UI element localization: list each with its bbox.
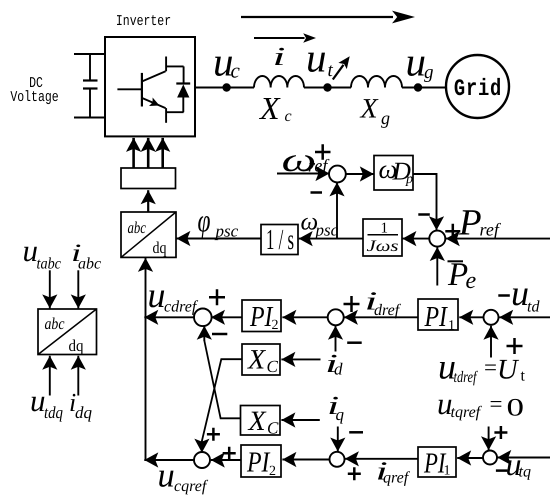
svg-text:t: t [521, 368, 526, 385]
svg-text:1 / s: 1 / s [266, 224, 294, 256]
svg-text:PI: PI [246, 447, 270, 479]
svg-text:1: 1 [444, 464, 451, 479]
svg-text:c: c [285, 108, 292, 125]
svg-text:psc: psc [315, 221, 339, 240]
svg-text:u: u [406, 39, 427, 85]
svg-text:PI: PI [249, 301, 273, 333]
svg-text:dref: dref [374, 302, 402, 319]
svg-text:2: 2 [272, 318, 279, 333]
svg-text:φ: φ [198, 202, 211, 239]
svg-text:X: X [247, 345, 266, 376]
svg-text:dq: dq [69, 336, 84, 355]
svg-text:u: u [306, 35, 327, 81]
svg-text:dq: dq [153, 238, 167, 257]
svg-text:p: p [405, 172, 413, 187]
svg-text:psc: psc [215, 222, 239, 241]
svg-text:cdref: cdref [164, 299, 199, 316]
svg-text:ref: ref [308, 156, 330, 176]
svg-text:qref: qref [383, 470, 411, 487]
svg-text:u: u [148, 275, 166, 315]
svg-text:C: C [267, 419, 279, 438]
svg-text:Jωs: Jωs [367, 238, 399, 255]
svg-text:t: t [328, 60, 334, 81]
svg-text:tdq: tdq [44, 403, 63, 422]
svg-text:u: u [158, 457, 175, 495]
svg-text:tq: tq [519, 464, 531, 481]
svg-text:Voltage: Voltage [10, 89, 58, 106]
svg-text:cqref: cqref [174, 478, 209, 495]
svg-text:g: g [424, 62, 434, 83]
svg-text:X: X [360, 94, 379, 125]
svg-text:tdref: tdref [454, 369, 479, 386]
svg-text:X: X [258, 90, 281, 126]
svg-text:abc: abc [45, 314, 66, 333]
svg-text:X: X [248, 406, 267, 437]
svg-text:tqref: tqref [451, 404, 483, 421]
svg-text:q: q [336, 405, 345, 424]
svg-text:g: g [381, 108, 390, 128]
svg-text:tabc: tabc [37, 256, 62, 273]
svg-text:dq: dq [75, 403, 93, 422]
svg-text:d: d [334, 360, 343, 379]
svg-text:PI: PI [424, 301, 448, 333]
svg-text:Inverter: Inverter [116, 13, 171, 30]
svg-text:1: 1 [448, 319, 455, 334]
svg-text:td: td [527, 299, 540, 316]
svg-text:0: 0 [507, 395, 525, 422]
svg-text:=: = [490, 392, 503, 417]
svg-text:abc: abc [128, 218, 147, 237]
svg-text:abc: abc [78, 256, 101, 273]
svg-text:c: c [231, 59, 241, 83]
svg-text:2: 2 [269, 464, 276, 479]
svg-text:P: P [458, 203, 482, 244]
svg-text:e: e [466, 268, 477, 294]
svg-text:U: U [497, 355, 520, 386]
svg-text:C: C [267, 357, 279, 376]
svg-text:ref: ref [480, 220, 502, 240]
svg-text:Grid: Grid [454, 75, 502, 103]
svg-text:=: = [484, 355, 497, 380]
svg-text:i: i [273, 42, 286, 71]
